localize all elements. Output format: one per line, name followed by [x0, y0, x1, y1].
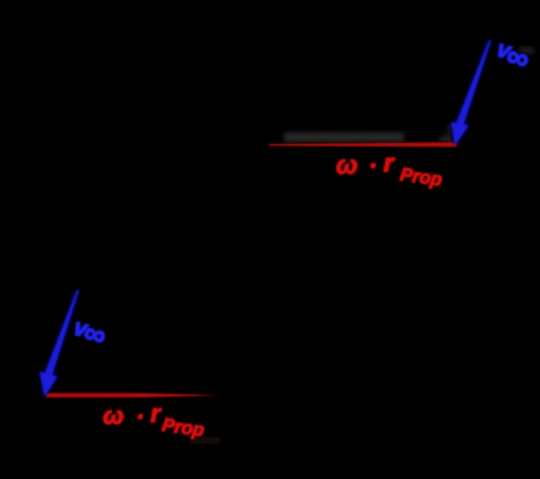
- svg-text:ω: ω: [336, 150, 358, 180]
- svg-text:·: ·: [136, 403, 144, 431]
- svg-text:ω: ω: [103, 402, 124, 430]
- svg-text:·: ·: [369, 150, 378, 180]
- svg-text:r: r: [151, 400, 162, 428]
